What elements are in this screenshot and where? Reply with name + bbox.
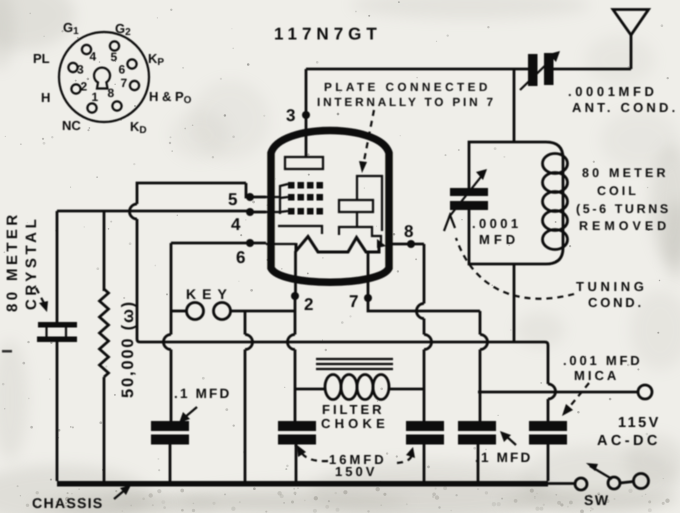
svg-text:NC: NC xyxy=(62,118,81,133)
svg-text:2: 2 xyxy=(81,80,88,94)
svg-text:7: 7 xyxy=(349,292,358,311)
svg-text:.1 MFD: .1 MFD xyxy=(174,386,231,401)
svg-text:H: H xyxy=(41,90,50,105)
svg-text:4: 4 xyxy=(231,215,241,234)
svg-text:FILTER: FILTER xyxy=(322,402,385,417)
svg-text:5: 5 xyxy=(228,190,237,209)
svg-text:CHASSIS: CHASSIS xyxy=(32,496,103,512)
svg-text:.0001MFD: .0001MFD xyxy=(568,84,658,99)
svg-text:5: 5 xyxy=(111,50,118,64)
svg-text:PLATE CONNECTED: PLATE CONNECTED xyxy=(324,80,491,94)
svg-text:6: 6 xyxy=(236,248,245,267)
svg-text:80 METER: 80 METER xyxy=(4,211,21,312)
svg-text:50,000 (ω): 50,000 (ω) xyxy=(119,300,137,398)
svg-text:(5-6 TURNS: (5-6 TURNS xyxy=(576,202,671,216)
svg-text:COIL: COIL xyxy=(597,184,639,198)
svg-text:8: 8 xyxy=(108,86,115,100)
svg-text:COND.: COND. xyxy=(588,295,644,310)
svg-text:ANT. COND.: ANT. COND. xyxy=(572,100,678,115)
svg-text:115V: 115V xyxy=(618,415,661,431)
svg-text:REMOVED: REMOVED xyxy=(579,219,670,233)
svg-text:8: 8 xyxy=(404,222,413,241)
svg-text:2: 2 xyxy=(304,295,313,314)
svg-text:4: 4 xyxy=(90,50,97,64)
svg-text:AC-DC: AC-DC xyxy=(597,433,661,449)
svg-text:INTERNALLY TO PIN 7: INTERNALLY TO PIN 7 xyxy=(317,95,496,109)
svg-text:80 METER: 80 METER xyxy=(582,166,669,180)
svg-text:MICA: MICA xyxy=(574,368,619,383)
svg-text:MFD: MFD xyxy=(479,232,519,247)
svg-text:CRYSTAL: CRYSTAL xyxy=(23,216,40,310)
svg-text:1: 1 xyxy=(92,90,99,104)
svg-text:117N7GT: 117N7GT xyxy=(274,25,382,44)
svg-text:KEY: KEY xyxy=(186,286,233,302)
svg-text:3: 3 xyxy=(77,63,84,77)
svg-text:150V: 150V xyxy=(335,464,377,479)
svg-text:3: 3 xyxy=(286,106,295,125)
svg-text:.0001: .0001 xyxy=(472,216,522,231)
svg-text:CHOKE: CHOKE xyxy=(321,416,389,431)
svg-text:TUNING: TUNING xyxy=(576,279,647,294)
svg-text:7: 7 xyxy=(121,76,128,90)
svg-text:PL: PL xyxy=(33,51,50,66)
svg-text:SW: SW xyxy=(584,492,610,508)
svg-text:6: 6 xyxy=(119,63,126,77)
svg-text:.001 MFD: .001 MFD xyxy=(563,353,642,368)
svg-text:.1 MFD: .1 MFD xyxy=(475,450,532,465)
